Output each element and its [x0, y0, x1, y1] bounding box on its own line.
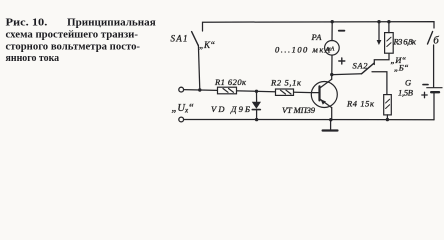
svg-text:VT МП39: VT МП39 — [282, 105, 316, 115]
battery G — [427, 88, 442, 120]
svg-text:SA1: SA1 — [171, 34, 188, 44]
svg-text:PA: PA — [311, 32, 323, 42]
svg-text:„Б“: „Б“ — [394, 62, 409, 72]
svg-text:R1 620к: R1 620к — [214, 77, 247, 87]
node junction R4 bottom — [386, 118, 389, 121]
meter PA — [325, 41, 340, 75]
svg-text:„К“: „К“ — [199, 40, 215, 50]
wire contact I — [374, 53, 389, 64]
wiper arrow R3 — [377, 22, 382, 45]
terminal Ux minus — [179, 117, 184, 122]
resistor R4 — [384, 95, 392, 120]
terminal Ux plus — [179, 87, 184, 92]
wire contact B — [372, 72, 387, 95]
wire meter branch — [331, 22, 333, 41]
wire top rail — [203, 22, 435, 31]
svg-text:б: б — [433, 35, 439, 47]
node junction rail R3 — [387, 20, 390, 23]
caption figure text — [6, 16, 156, 64]
svg-text:сторного вольтметра посто-: сторного вольтметра посто- — [6, 40, 141, 52]
diode VD D9B — [252, 91, 261, 119]
svg-text:схема простейшего транзи-: схема простейшего транзи- — [6, 29, 139, 41]
label battery minus — [423, 84, 428, 86]
switch SA2 — [334, 63, 375, 74]
label meter plus — [339, 58, 345, 64]
wire bottom rail — [184, 119, 434, 121]
svg-text:1,5В: 1,5В — [398, 88, 413, 98]
svg-text:0...100 мкА: 0...100 мкА — [275, 45, 331, 55]
wire SA1 to input — [198, 45, 199, 90]
svg-text:R3 6,8к: R3 6,8к — [393, 37, 418, 47]
node collector junction — [330, 73, 333, 76]
svg-text:R4 15к: R4 15к — [346, 99, 375, 109]
label battery plus — [422, 92, 427, 97]
svg-text:Принципиальная: Принципиальная — [67, 16, 156, 28]
ground — [323, 120, 338, 131]
switch SA1 second pole — [428, 32, 434, 88]
svg-text:„Ux“: „Ux“ — [172, 103, 195, 115]
svg-text:SA2: SA2 — [353, 61, 369, 71]
wire input top — [184, 90, 312, 93]
resistor R1 — [218, 87, 237, 94]
svg-text:R2 5,1к: R2 5,1к — [270, 78, 302, 88]
resistor R2 — [276, 89, 294, 95]
svg-text:янного тока: янного тока — [6, 52, 60, 64]
switch SA1 — [192, 32, 199, 46]
node emitter junction — [329, 118, 332, 121]
node junction diode top — [255, 90, 258, 93]
node junction SA1/input — [198, 88, 201, 91]
svg-text:Рис. 10.: Рис. 10. — [6, 16, 48, 28]
svg-text:G: G — [405, 78, 411, 88]
label meter minus — [339, 30, 345, 32]
node junction rail arrow — [377, 20, 380, 23]
transistor VT MP39 — [311, 75, 337, 120]
node junction diode bottom — [255, 118, 258, 121]
node junction rail meter — [331, 20, 334, 23]
resistor R3 — [385, 22, 394, 53]
